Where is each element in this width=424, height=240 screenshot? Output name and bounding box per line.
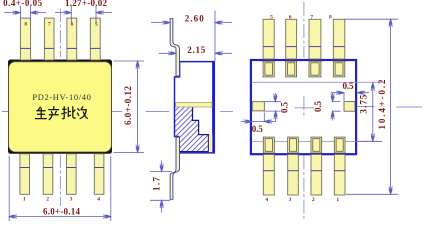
次 [77, 107, 87, 119]
dim lines pin width 0.4 [4, 6, 46, 22]
svg-text:5: 5 [95, 22, 98, 28]
right side pad [344, 102, 355, 112]
svg-text:5: 5 [270, 15, 273, 21]
pin 6 top [286, 19, 297, 59]
pin 1 [20, 154, 30, 195]
centerline dash through 3.75 dim [358, 106, 375, 108]
pad 5 [263, 61, 274, 77]
pin 4 bottom [263, 155, 274, 196]
dim 3.75 lines [358, 83, 383, 141]
pad 4b [263, 137, 274, 153]
pin 8 [20, 18, 30, 60]
svg-text:8: 8 [24, 22, 27, 28]
svg-text:0.5: 0.5 [252, 124, 264, 134]
horizontal centerline dash right of view [220, 111, 233, 113]
dim 0.5 right pad height lines [331, 93, 341, 121]
svg-text:3: 3 [70, 196, 73, 202]
left side pad [252, 102, 264, 111]
svg-text:6: 6 [289, 15, 292, 21]
dim 0.5 left pad width lines [241, 113, 276, 124]
die pad yellow band [176, 102, 212, 107]
pin 7 top [309, 19, 321, 59]
body outline [251, 60, 356, 154]
pad 3b [288, 137, 299, 153]
svg-text:0.4+-0.05: 0.4+-0.05 [3, 0, 42, 8]
svg-text:8: 8 [329, 15, 332, 21]
svg-text:1: 1 [23, 196, 26, 202]
navy step line [179, 107, 209, 152]
dim 10.4+-0.2 lines [344, 19, 398, 194]
dim 0.5 left pad height lines [264, 93, 281, 122]
top lead (gull) [170, 19, 179, 76]
svg-text:7: 7 [310, 15, 313, 21]
vertical centerline [303, 2, 305, 220]
bottom lead (gull) [170, 137, 179, 199]
horizontal centerline dash far right [396, 106, 422, 108]
pin 6 [67, 18, 77, 60]
pin 7 [44, 18, 54, 60]
svg-text:3: 3 [289, 197, 292, 203]
批 [62, 107, 75, 119]
dim lines pitch 1.27 [55, 6, 112, 24]
hatched molding area [175, 107, 208, 152]
body outline [175, 62, 215, 153]
pad 8 [333, 61, 345, 77]
svg-text:PD2-HV-10/40: PD2-HV-10/40 [32, 92, 91, 102]
svg-text:10.4+-0.2: 10.4+-0.2 [377, 79, 387, 130]
pin 3 [67, 154, 77, 195]
svg-text:3.75: 3.75 [359, 94, 369, 114]
dim 1.7 lines [150, 161, 172, 213]
svg-text:6.0+-0.14: 6.0+-0.14 [43, 207, 81, 217]
svg-text:0.5: 0.5 [280, 102, 290, 114]
生 [35, 107, 46, 118]
production batch glyphs 生产批次 [35, 107, 87, 120]
pin 3 bottom [288, 155, 299, 196]
pin 2 [43, 154, 53, 195]
dim 2.15 lines [159, 52, 232, 55]
svg-text:2: 2 [46, 196, 49, 202]
pin 5 top [263, 19, 274, 59]
dim 2.60 lines [151, 11, 232, 62]
svg-text:2.15: 2.15 [187, 45, 206, 55]
svg-text:2.60: 2.60 [185, 14, 205, 24]
pin 4 [94, 154, 104, 195]
svg-text:7: 7 [48, 22, 51, 28]
svg-text:0.5: 0.5 [343, 81, 355, 91]
package body [8, 60, 112, 154]
horizontal center tick [294, 107, 314, 109]
pad 7 [309, 61, 321, 77]
pin 5 [90, 18, 100, 60]
horizontal centerline [2, 111, 169, 113]
pad 6 [286, 61, 297, 77]
svg-text:6.0+-0.12: 6.0+-0.12 [123, 86, 133, 126]
产 [49, 107, 59, 120]
svg-text:1.7: 1.7 [152, 177, 162, 192]
svg-text:0.5: 0.5 [313, 101, 323, 113]
svg-text:4: 4 [97, 196, 100, 202]
svg-text:4: 4 [265, 197, 268, 203]
dim 0.5 right pad width lines [331, 91, 369, 101]
pad 1b [334, 137, 345, 153]
svg-text:2: 2 [312, 197, 315, 203]
internal reference line top [252, 81, 383, 83]
pad 2b [311, 137, 322, 153]
internal reference line bottom [252, 140, 383, 142]
svg-text:1: 1 [336, 197, 339, 203]
yellow strip bottom right [209, 135, 212, 151]
thick right wall [212, 62, 215, 153]
vertical centerline [59, 9, 61, 206]
pin 8 top [333, 19, 345, 59]
pin 1 bottom [334, 155, 345, 196]
pin 2 bottom [311, 155, 322, 196]
